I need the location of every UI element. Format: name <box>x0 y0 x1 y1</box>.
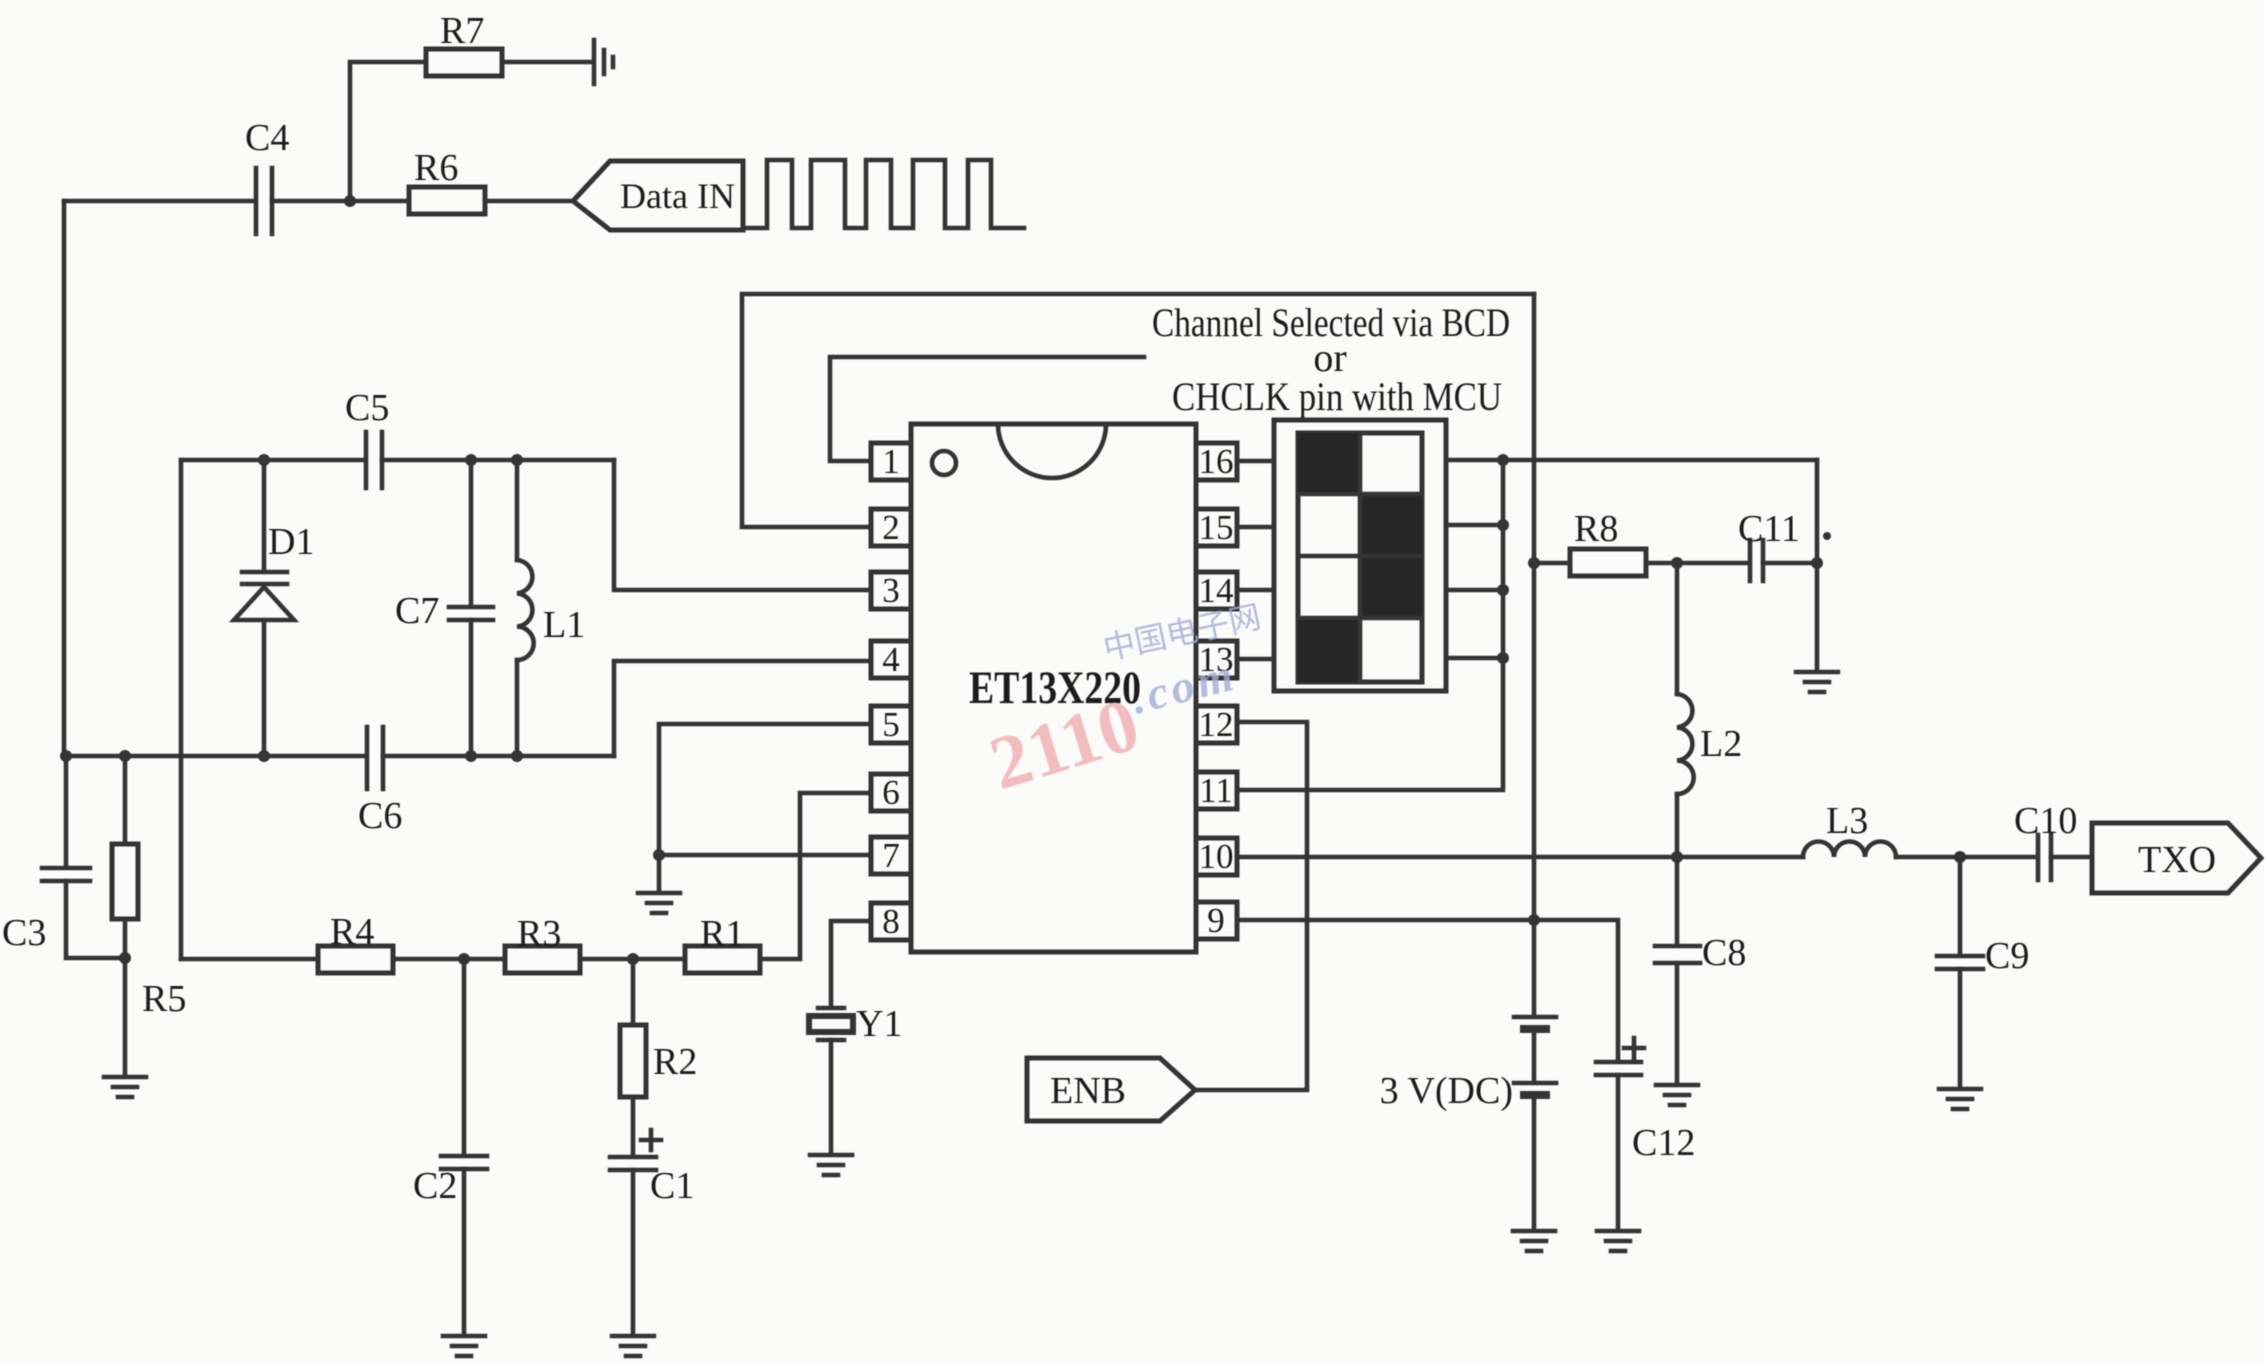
capacitor C4 <box>256 168 272 234</box>
svg-text:C2: C2 <box>413 1165 457 1207</box>
capacitor C8 <box>1655 946 1700 963</box>
node D1 top <box>258 454 270 466</box>
svg-text:Y1: Y1 <box>856 1003 902 1045</box>
IC notch <box>998 424 1106 478</box>
wire tank right top segment to pin3 <box>614 460 871 590</box>
wire Y1 bottom to ground <box>829 1040 834 1154</box>
node bus row13 <box>1497 652 1509 664</box>
svg-text:16: 16 <box>1199 442 1234 481</box>
svg-text:7: 7 <box>882 836 900 875</box>
svg-text:R8: R8 <box>1574 508 1618 550</box>
wire C2 top <box>462 959 467 1154</box>
node rail/pin9 <box>1528 914 1540 926</box>
DIP switch black cells <box>1298 433 1422 682</box>
wire pin13 to switch <box>1237 657 1274 662</box>
inductor L3 <box>1803 842 1896 858</box>
wire tank bottom right <box>383 754 614 759</box>
capacitor C11 <box>1750 540 1763 581</box>
port Data IN tag <box>573 161 743 230</box>
wire pin14 to switch <box>1237 588 1274 593</box>
wire pin8 to Y1 <box>831 921 871 1006</box>
resistor R1 <box>685 946 760 973</box>
resistor R5 <box>112 844 138 919</box>
node R2 tap <box>627 953 639 965</box>
battery 3V cell1 <box>1514 1017 1556 1029</box>
wire R5 bottom to ground <box>123 919 128 1076</box>
wire C8 top <box>1675 857 1680 944</box>
capacitor C3 <box>42 868 90 881</box>
resistor R6 <box>409 187 485 214</box>
capacitor C1 <box>610 1157 656 1170</box>
svg-text:D1: D1 <box>268 521 314 563</box>
capacitor C7 <box>449 460 493 756</box>
pin 7 box <box>871 837 911 874</box>
wire L3 to C10 <box>1896 855 2036 860</box>
svg-text:R3: R3 <box>517 913 561 955</box>
wire R2 to C1 <box>631 1097 636 1155</box>
pin 16 box <box>1196 443 1237 480</box>
DIP switch S1 outer <box>1274 420 1446 691</box>
wire switch row15 output <box>1446 523 1503 528</box>
wire C2 bottom <box>462 1169 467 1335</box>
svg-text:L2: L2 <box>1700 723 1742 765</box>
wire tank bottom <box>66 754 365 759</box>
wire pin10 row <box>1237 855 1803 860</box>
port ENB tag <box>1027 1058 1195 1121</box>
capacitor C6 <box>367 727 383 789</box>
svg-text:C8: C8 <box>1702 932 1746 974</box>
node left bottom <box>60 750 72 762</box>
wire pin15 to switch <box>1237 525 1274 530</box>
ground (below C12) <box>1597 1231 1639 1251</box>
svg-text:12: 12 <box>1199 705 1234 744</box>
wire C10 to TXO <box>2051 855 2092 860</box>
IC pin1 marker circle <box>932 451 956 475</box>
wire junction to ground <box>657 855 662 892</box>
svg-text:R7: R7 <box>440 10 484 52</box>
port TXO tag <box>2092 823 2261 893</box>
capacitor C2 <box>441 1156 487 1169</box>
svg-text:C1: C1 <box>650 1165 694 1207</box>
node R8/L2 junction <box>1671 557 1683 569</box>
svg-text:C10: C10 <box>2014 800 2077 842</box>
svg-text:C4: C4 <box>245 117 289 159</box>
svg-text:C9: C9 <box>1985 935 2029 977</box>
resistor R2 <box>620 1025 646 1097</box>
node C7 bottom <box>465 750 477 762</box>
svg-text:C11: C11 <box>1738 508 1800 550</box>
capacitor C5 <box>366 432 382 488</box>
pin 14 box <box>1196 572 1237 609</box>
svg-text:2: 2 <box>882 508 900 547</box>
wire switch row13 output <box>1446 656 1503 661</box>
pin 4 box <box>871 641 911 678</box>
label C11 dot <box>1823 532 1831 540</box>
node R5 top <box>119 750 131 762</box>
svg-text:C6: C6 <box>358 795 402 837</box>
wire pin1 stub loop <box>830 357 1144 461</box>
pin 12 box <box>1196 706 1237 743</box>
capacitor C12 <box>1596 1062 1641 1075</box>
resistor R3 <box>505 946 580 973</box>
wire tank left vertical to R4 <box>181 957 318 962</box>
svg-text:C3: C3 <box>2 912 46 954</box>
wire R8 to C11 <box>1646 561 1748 566</box>
resistor R7 <box>426 49 502 76</box>
ground (below C9) <box>1939 1089 1981 1109</box>
svg-text:R4: R4 <box>330 911 374 953</box>
node C7 top <box>465 454 477 466</box>
ground (below R5) <box>104 1077 146 1097</box>
ground (C11 net) <box>1796 672 1838 692</box>
node C11 right <box>1811 557 1823 569</box>
pin 6 box <box>871 774 911 811</box>
wire row16 corner down to ground <box>1815 460 1820 671</box>
wire rail to R8 <box>1534 561 1570 566</box>
wire left edge to C4 <box>64 199 254 204</box>
svg-text:10: 10 <box>1199 837 1234 876</box>
pin 11 box <box>1196 772 1237 809</box>
pin 13 box <box>1196 641 1237 678</box>
svg-text:R1: R1 <box>700 913 744 955</box>
wire pin5 <box>659 724 871 855</box>
svg-text:4: 4 <box>882 640 900 679</box>
node L1 top <box>511 454 523 466</box>
capacitor C9 <box>1937 956 1983 969</box>
data waveform <box>743 160 1024 228</box>
node C9 tap <box>1954 851 1966 863</box>
node bus row15 <box>1497 519 1509 531</box>
node C3/R5 bottom <box>119 952 131 964</box>
svg-text:C12: C12 <box>1632 1122 1695 1164</box>
ground (below C2) <box>443 1336 485 1356</box>
node D1 bottom <box>258 750 270 762</box>
svg-text:11: 11 <box>1199 771 1233 810</box>
node L1 bottom <box>511 750 523 762</box>
wire tank top left <box>181 458 364 463</box>
svg-text:15: 15 <box>1199 508 1234 547</box>
wire switch row14 output <box>1446 588 1503 593</box>
node rail R8 tap <box>1528 557 1540 569</box>
resistor R4 <box>318 946 393 973</box>
svg-text:C5: C5 <box>345 387 389 429</box>
ground (below Y1) <box>810 1155 852 1175</box>
wire left vertical from C4 row down <box>62 201 67 756</box>
capacitor C12 polarity plus <box>1624 1038 1644 1058</box>
wire battery bottom <box>1532 1097 1537 1230</box>
wire tank top right <box>382 458 614 463</box>
svg-text:R5: R5 <box>142 978 186 1020</box>
wire pin16 to switch <box>1237 459 1274 464</box>
capacitor C10 <box>2038 835 2051 880</box>
svg-text:CHCLK pin with MCU: CHCLK pin with MCU <box>1172 374 1502 419</box>
wire pin7 <box>659 853 871 858</box>
svg-text:ENB: ENB <box>1050 1070 1126 1112</box>
battery 3V cell2 <box>1514 1083 1556 1095</box>
wire switch row16 output <box>1446 458 1817 463</box>
wire C9 bottom <box>1958 969 1963 1088</box>
wire pin12 to ENB <box>1195 722 1307 1090</box>
svg-text:R2: R2 <box>653 1041 697 1083</box>
ground (rotated, right of R7) <box>594 40 613 84</box>
svg-text:TXO: TXO <box>2138 839 2216 881</box>
crystal Y1 <box>809 1008 853 1040</box>
svg-text:R6: R6 <box>414 147 458 189</box>
wire R5 top <box>123 756 128 844</box>
node bus row16 <box>1497 454 1509 466</box>
inductor L1 <box>517 460 534 756</box>
ground (pin5/7 net) <box>638 893 680 913</box>
wire R7 left to junction vertical <box>350 62 426 201</box>
wire C4 to R6 <box>272 199 409 204</box>
DIP switch S1 inner <box>1298 433 1422 682</box>
pin 3 box <box>871 572 911 609</box>
wire 3V rail vertical <box>1532 294 1537 1016</box>
capacitor C1 polarity plus <box>641 1130 661 1150</box>
wire bus vertical to pin11 <box>1237 460 1503 790</box>
svg-text:L1: L1 <box>543 604 585 646</box>
node L2/C8/TXO row junction <box>1671 851 1683 863</box>
ground (below battery) <box>1513 1231 1555 1251</box>
svg-text:5: 5 <box>882 705 900 744</box>
DIP switch cell dividers <box>1298 433 1422 682</box>
pin 5 box <box>871 706 911 743</box>
svg-text:C7: C7 <box>395 590 439 632</box>
wire R7 right to ground <box>502 60 592 65</box>
wire tank left vertical <box>179 460 184 959</box>
wire battery middle <box>1532 1031 1537 1082</box>
ground (below C8) <box>1656 1085 1698 1105</box>
wire C1 bottom <box>631 1170 636 1335</box>
svg-text:3 V(DC): 3 V(DC) <box>1380 1070 1513 1112</box>
wire R3 to R1 <box>580 957 685 962</box>
wire C12 bottom <box>1616 1075 1621 1230</box>
wire tank right bottom segment to pin4 <box>614 661 871 756</box>
svg-text:9: 9 <box>1207 901 1225 940</box>
wire pin2 outer loop <box>742 294 1534 527</box>
svg-text:8: 8 <box>882 902 900 941</box>
pin 2 box <box>871 509 911 546</box>
wire C9 top <box>1958 857 1963 954</box>
pin 1 box <box>871 443 911 480</box>
node bus row14 <box>1497 584 1509 596</box>
wire R4 to R3 <box>393 957 505 962</box>
resistor R8 <box>1570 549 1646 576</box>
wire C11 right to vertical <box>1763 561 1817 566</box>
svg-text:L3: L3 <box>1826 800 1868 842</box>
wire R6 to Data IN <box>485 199 573 204</box>
node junction C4/R6/R7 <box>344 195 356 207</box>
wire R2 top <box>631 959 636 1025</box>
pin 10 box <box>1196 838 1237 875</box>
inductor L2 <box>1677 563 1694 857</box>
wire C8 bottom <box>1675 963 1680 1084</box>
op-amp U1 IC body <box>911 424 1196 952</box>
svg-text:1: 1 <box>882 442 900 481</box>
node pin5/pin7 junction <box>653 849 665 861</box>
pin 9 box <box>1196 902 1237 939</box>
svg-text:6: 6 <box>882 773 900 812</box>
wire C3 top <box>64 756 69 866</box>
node C2 tap <box>458 953 470 965</box>
svg-text:3: 3 <box>882 571 900 610</box>
svg-text:Data IN: Data IN <box>620 176 735 216</box>
ground (below C1) <box>612 1336 654 1356</box>
diode D1 (varactor) <box>234 460 294 756</box>
wire C3 bottom to R5 node <box>66 881 125 958</box>
wire pin9 row <box>1237 920 1618 1061</box>
pin 8 box <box>871 903 911 940</box>
wire R1 to pin6 <box>760 793 871 959</box>
pin 15 box <box>1196 509 1237 546</box>
